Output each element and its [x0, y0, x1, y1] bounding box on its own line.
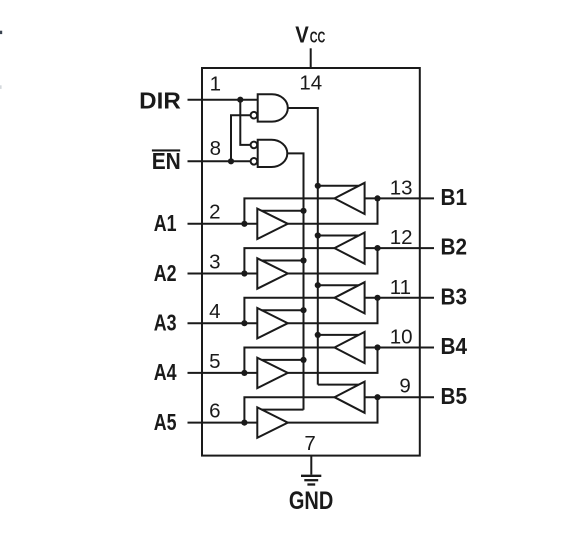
svg-text:A2: A2	[154, 260, 177, 286]
enable tap for B1 buffer	[318, 185, 359, 187]
svg-text:CC: CC	[310, 30, 326, 47]
overline on EN	[152, 149, 180, 151]
wire B4 line (pin 10)	[365, 347, 434, 349]
svg-text:GND: GND	[289, 488, 333, 515]
wire A4 buffer output to B4 node	[288, 348, 378, 373]
svg-text:B1: B1	[441, 184, 468, 210]
junction node A-enable rail ch1	[300, 208, 306, 214]
buffer A1-to-B1 (right-pointing)	[257, 209, 288, 239]
svg-text:10: 10	[390, 326, 413, 349]
svg-text:11: 11	[390, 276, 411, 299]
wire B2 buffer output to A2 node	[244, 248, 334, 273]
svg-text:1: 1	[210, 72, 221, 95]
svg-text:7: 7	[304, 432, 315, 455]
enable tap for B2 buffer	[318, 235, 359, 237]
enable tap for B4 buffer	[318, 334, 359, 336]
wire A1 buffer output to B1 node	[288, 198, 378, 223]
IC body outline U1	[202, 68, 420, 456]
svg-text:13: 13	[390, 176, 413, 199]
enable tap for B5 buffer	[318, 384, 359, 386]
inverting bubble on U1a lower input	[251, 112, 258, 119]
junction node B4	[374, 344, 380, 350]
wire B5 line (pin 9)	[365, 396, 434, 398]
svg-text:5: 5	[209, 350, 220, 373]
wire A1 input (pin 2)	[188, 223, 258, 225]
inverting bubble on U1b upper input	[251, 142, 258, 149]
buffer A5-to-B5 (right-pointing)	[257, 407, 288, 437]
wire B4 buffer output to A4 node	[244, 348, 334, 373]
buffer B4-to-A4 (left-pointing)	[335, 332, 365, 363]
wire EN to upper gate input	[231, 115, 251, 161]
svg-text:9: 9	[399, 374, 410, 397]
buffer B2-to-A2 (left-pointing)	[335, 233, 365, 264]
wire A2 buffer output to B2 node	[288, 248, 378, 273]
junction node A3	[241, 320, 247, 326]
svg-text:3: 3	[209, 250, 220, 273]
buffer B5-to-A5 (left-pointing)	[335, 382, 365, 413]
junction node A1	[241, 221, 247, 227]
edge artifact mark	[0, 31, 2, 34]
buffer A4-to-B4 (right-pointing)	[257, 358, 288, 388]
wire A2 input (pin 3)	[188, 273, 258, 275]
buffer B3-to-A3 (left-pointing)	[335, 282, 365, 313]
wire DIR input (pin 1)	[188, 99, 258, 101]
junction node B-enable rail ch3	[315, 282, 321, 288]
wire A5 input (pin 6)	[188, 422, 258, 424]
junction node B3	[374, 295, 380, 301]
svg-text:EN: EN	[152, 148, 181, 174]
wire B3 line (pin 11)	[365, 297, 434, 299]
enable tap for A1 buffer	[262, 210, 304, 212]
junction node B5	[374, 394, 380, 400]
buffer B1-to-A1 (left-pointing)	[335, 183, 365, 214]
junction node A-enable rail ch2	[300, 257, 306, 263]
junction node A5	[241, 420, 247, 426]
junction node B-enable rail ch1	[315, 183, 321, 189]
wire A3 input (pin 4)	[188, 322, 258, 324]
junction node B1	[374, 195, 380, 201]
inverting bubble on U1b lower input	[251, 158, 258, 165]
wire B2 line (pin 12)	[365, 247, 434, 249]
svg-text:A1: A1	[154, 210, 177, 236]
enable tap for A2 buffer	[262, 260, 304, 262]
junction node B2	[374, 245, 380, 251]
junction node A2	[241, 270, 247, 276]
junction node on EN line	[228, 158, 234, 164]
svg-text:B4: B4	[441, 333, 468, 359]
enable tap for A3 buffer	[262, 309, 304, 311]
junction node on DIR line	[237, 97, 243, 103]
wire A4 input (pin 5)	[188, 372, 258, 374]
svg-text:V: V	[295, 22, 309, 48]
buffer A2-to-B2 (right-pointing)	[257, 258, 288, 288]
svg-text:A5: A5	[154, 409, 177, 435]
wire A3 buffer output to B3 node	[288, 298, 378, 323]
wire B3 buffer output to A3 node	[244, 298, 334, 323]
junction node A4	[241, 370, 247, 376]
ground symbol	[301, 476, 321, 485]
svg-text:B3: B3	[441, 283, 468, 309]
buffer A3-to-B3 (right-pointing)	[257, 308, 288, 338]
enable tap for B3 buffer	[318, 284, 359, 286]
svg-text:6: 6	[209, 400, 220, 423]
enable tap for A5 buffer	[262, 409, 304, 411]
svg-text:B2: B2	[441, 234, 468, 260]
junction node B-enable rail ch4	[315, 332, 321, 338]
junction node A-enable rail ch4	[300, 357, 306, 363]
wire B5 buffer output to A5 node	[244, 397, 334, 422]
svg-text:DIR: DIR	[139, 87, 181, 113]
GND lead wire (pin 7)	[310, 456, 312, 475]
wire DIR to lower gate input	[240, 100, 250, 145]
wire U1a output to B-buffer enable rail	[288, 108, 318, 385]
enable tap for A4 buffer	[262, 359, 304, 361]
svg-text:14: 14	[299, 72, 322, 95]
svg-text:4: 4	[209, 300, 220, 323]
wire B1 buffer output to A1 node	[244, 198, 334, 223]
wire B1 line (pin 13)	[365, 197, 434, 199]
svg-text:12: 12	[390, 226, 413, 249]
junction node A-enable rail ch3	[300, 307, 306, 313]
svg-text:2: 2	[209, 201, 220, 224]
AND gate U1b (direction control, lower)	[258, 140, 288, 167]
AND gate U1a (direction control, upper)	[258, 94, 288, 121]
Vcc supply lead wire (pin 14)	[310, 48, 312, 68]
wire A5 buffer output to B5 node	[288, 397, 378, 422]
svg-text:B5: B5	[441, 383, 468, 409]
wire U1b output to A-buffer enable rail	[287, 153, 303, 409]
wire EN input (pin 8)	[188, 160, 251, 162]
svg-text:A3: A3	[154, 310, 177, 336]
svg-text:A4: A4	[154, 359, 177, 385]
svg-text:8: 8	[210, 137, 221, 160]
junction node B-enable rail ch2	[315, 232, 321, 238]
